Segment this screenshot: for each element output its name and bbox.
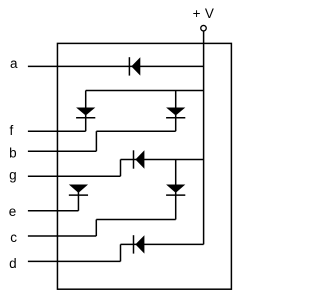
svg-text:e: e — [9, 204, 17, 219]
svg-text:g: g — [9, 167, 17, 182]
svg-text:a: a — [10, 56, 18, 71]
svg-text:+ V: + V — [193, 6, 215, 21]
svg-text:b: b — [9, 145, 17, 160]
svg-text:c: c — [10, 230, 17, 245]
svg-text:d: d — [9, 256, 17, 271]
svg-text:f: f — [10, 123, 14, 138]
